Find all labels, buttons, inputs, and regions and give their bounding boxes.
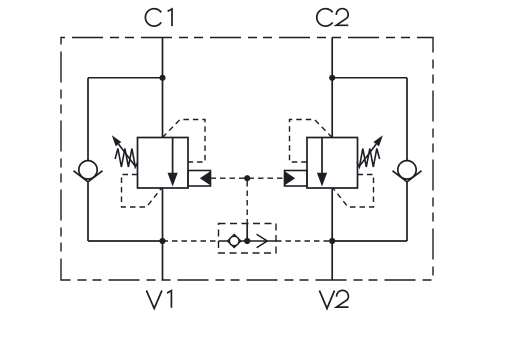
- wire C2 stem: [331, 38, 333, 138]
- junction dot shuttle node: [244, 238, 250, 244]
- shuttle ball: [229, 236, 239, 246]
- junction dot pilot node: [244, 175, 250, 181]
- CB2 flow arrow shaft: [321, 138, 323, 175]
- valve assembly boundary (dash-dot envelope): [61, 38, 433, 281]
- wire C2 branch to check valve (top right): [332, 77, 407, 79]
- wire pilot line (dashed, horizontal): [211, 177, 285, 179]
- CB1 pilot piston box: [188, 171, 211, 187]
- wire V1 stem: [162, 188, 164, 280]
- port label V2: [319, 290, 348, 308]
- shuttle/orifice-check enclosure (dashed box): [219, 224, 277, 254]
- junction dot node C1/branch: [159, 75, 165, 81]
- wire C1 stem: [162, 38, 164, 138]
- port label C2: [317, 9, 349, 27]
- wire V2 stem: [331, 188, 333, 280]
- wire pilot drop (solid tail): [246, 223, 248, 241]
- CB2 pilot piston box: [285, 171, 308, 187]
- CB2 adjustment arrow shaft: [359, 144, 376, 166]
- CB1 flow arrow shaft: [172, 138, 174, 175]
- CB2 internal drain passage (dashed, lower right): [333, 175, 374, 208]
- wire bottom-left rail: [88, 240, 163, 242]
- CB2 adjustment arrow head: [373, 135, 383, 146]
- check valve CV2 seat: [393, 171, 422, 182]
- CB1 adjustment arrow shaft: [119, 144, 136, 166]
- counterbalance valve CB2 body: [307, 138, 358, 189]
- check valve CV2 ball: [398, 161, 416, 179]
- CB1 adjustable spring: [115, 149, 138, 168]
- CB1 pilot triangle: [200, 171, 211, 185]
- wire C1 branch to check valve (top left): [88, 77, 163, 79]
- junction dot node V1/rail: [159, 238, 165, 244]
- counterbalance valve CB1 body: [138, 138, 189, 189]
- shuttle seat diamond: [228, 235, 241, 248]
- CB2 internal pilot passage (dashed, upper left): [290, 120, 333, 163]
- wire dashed rail right of shuttle box: [276, 240, 332, 242]
- wire pilot drop (dashed): [246, 181, 248, 223]
- CB1 internal pilot passage (dashed, upper right): [163, 120, 206, 163]
- CB1 internal drain passage (dashed, lower left): [122, 175, 163, 208]
- wire below check valve CV2: [406, 182, 408, 241]
- flow direction chevron: [257, 234, 268, 247]
- junction dot node C2/branch: [329, 75, 335, 81]
- CB1 adjustment arrow head: [112, 135, 122, 146]
- CB1 flow arrow head: [168, 173, 178, 187]
- port label V1: [146, 291, 171, 309]
- check valve CV1 seat: [74, 171, 103, 182]
- wire bottom-right rail: [332, 240, 407, 242]
- port label C1: [145, 9, 172, 26]
- wire dashed rail left of shuttle box: [163, 240, 219, 242]
- junction dot node V2/rail: [329, 238, 335, 244]
- wire down to check valve CV2: [406, 78, 408, 161]
- CB2 adjustable spring: [357, 149, 380, 168]
- CB2 flow arrow head: [317, 173, 327, 187]
- wire through shuttle box: [219, 240, 277, 242]
- wire down to check valve CV1: [87, 78, 89, 161]
- check valve CV1 ball: [79, 161, 97, 179]
- CB2 pilot triangle: [285, 171, 296, 185]
- wire below check valve CV1: [87, 182, 89, 241]
